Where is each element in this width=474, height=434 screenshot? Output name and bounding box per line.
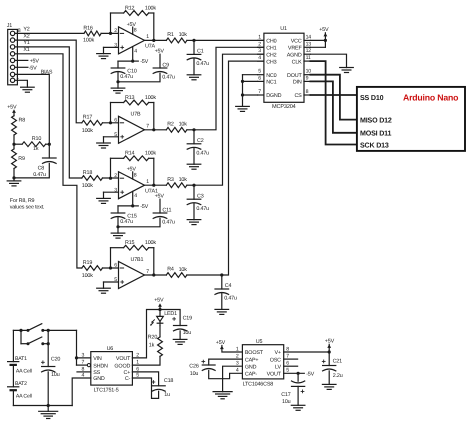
wire NC0 NC1 DGND to ground [243, 74, 258, 76]
wire R9 to ground [13, 169, 15, 178]
ground below C3 [193, 203, 195, 219]
wire J1 pin 3 -5V stub [15, 66, 28, 68]
svg-text:C18: C18 [164, 378, 174, 384]
wire C2 node to CH1 [194, 47, 264, 130]
svg-text:-5V: -5V [140, 59, 148, 65]
wire C15 to ground rail [117, 217, 119, 226]
svg-text:LTC1751-5: LTC1751-5 [94, 387, 119, 393]
wire U7A output [145, 39, 167, 41]
U7A1 -5V supply pin 4 [132, 191, 134, 206]
svg-text:3: 3 [258, 48, 261, 54]
svg-text:100k: 100k [82, 183, 93, 189]
capacitor C9 0.47u [153, 67, 167, 69]
svg-text:9: 9 [306, 75, 309, 81]
svg-text:100k: 100k [83, 37, 94, 43]
svg-text:+5V: +5V [7, 104, 17, 110]
svg-text:C-: C- [125, 376, 131, 382]
svg-text:Y1: Y1 [23, 40, 29, 46]
capacitor C20 10u [47, 330, 49, 366]
svg-text:CH2: CH2 [266, 52, 276, 58]
svg-text:CH0: CH0 [266, 39, 276, 45]
svg-text:MOSI D11: MOSI D11 [360, 130, 392, 138]
wire C26 bottom to CAP- [209, 370, 243, 378]
wire feedback loop U7B1 [110, 248, 112, 268]
capacitor C3 0.47u [193, 185, 195, 199]
svg-text:0.47u: 0.47u [120, 74, 133, 80]
switch SW1 pole A [13, 329, 28, 331]
svg-text:1u: 1u [164, 392, 170, 398]
wire R4 to C4 [187, 274, 222, 276]
wire C10 to ground rail [117, 72, 119, 81]
wire feedback loop U7B [110, 103, 112, 123]
svg-text:100k: 100k [145, 151, 156, 157]
svg-text:8: 8 [134, 28, 137, 34]
svg-text:BOOST: BOOST [245, 350, 264, 356]
wire J1 pin 4 +5V stub [15, 59, 28, 61]
svg-text:GND: GND [245, 364, 257, 370]
wire battery bottom rail [13, 405, 72, 407]
capacitor C1 0.47u [193, 40, 195, 54]
svg-text:For R8, R9: For R8, R9 [10, 198, 35, 204]
svg-text:10u: 10u [51, 372, 60, 378]
op-amp U7B1 [119, 262, 145, 289]
svg-text:C8: C8 [38, 165, 45, 171]
ground below C10 [111, 87, 125, 89]
svg-text:CLK: CLK [292, 59, 303, 65]
wire U6 GND to battery rail [72, 378, 91, 406]
wire C18 bottom to U6 C- [132, 378, 158, 398]
wire R1 to C1 [187, 39, 194, 41]
wire J1 pin 1 to ground [15, 80, 28, 87]
U7A -5V supply pin 4 [132, 47, 134, 62]
svg-text:VOUT: VOUT [116, 356, 131, 362]
svg-text:OSC: OSC [270, 357, 281, 363]
ground below C1 [193, 59, 195, 75]
ground below J1 [21, 86, 35, 88]
wire feedback loop U7A1 [110, 158, 112, 178]
svg-text:C19: C19 [183, 315, 193, 321]
wire switch to U6 VIN [77, 330, 91, 358]
wire +5V rail to U6 VOUT [132, 310, 160, 358]
wire R16 to U7A [101, 32, 118, 34]
op-amp U7A1 [119, 172, 145, 199]
svg-text:R8: R8 [19, 118, 26, 124]
svg-text:NC0: NC0 [266, 73, 276, 79]
svg-text:U7B: U7B [131, 112, 142, 118]
svg-text:100k: 100k [82, 273, 93, 279]
svg-text:0.47u: 0.47u [120, 219, 133, 225]
svg-text:GOOD: GOOD [114, 363, 130, 369]
svg-text:4: 4 [134, 48, 137, 54]
svg-text:+5V: +5V [216, 340, 226, 346]
svg-text:10k: 10k [179, 122, 188, 128]
svg-text:0.47u: 0.47u [162, 75, 175, 81]
svg-text:2: 2 [114, 28, 117, 34]
wire U7B1 output [145, 274, 167, 276]
svg-text:X1: X1 [23, 47, 29, 53]
svg-text:4: 4 [258, 55, 261, 61]
ground below U5 GND [213, 391, 232, 393]
svg-text:VCC: VCC [291, 39, 302, 45]
svg-text:VOUT: VOUT [267, 372, 282, 378]
wire ground rail to C9 [118, 73, 160, 82]
svg-text:7: 7 [81, 360, 84, 366]
ground below C17 [297, 386, 299, 405]
wire C4 node to CH3 [222, 61, 264, 275]
wire U7A1 output [145, 184, 167, 186]
ground below C19 [179, 331, 181, 340]
svg-text:+5V: +5V [155, 193, 165, 199]
Arduino Nano box [357, 87, 465, 151]
svg-text:R17: R17 [83, 115, 93, 121]
svg-text:7: 7 [146, 269, 149, 275]
op-amp U7B [119, 116, 145, 143]
capacitor C26 10u [202, 361, 205, 363]
wire CS to SS D10 [310, 94, 357, 96]
svg-text:C2: C2 [197, 138, 204, 144]
svg-text:5: 5 [258, 69, 261, 75]
svg-text:R1: R1 [167, 32, 174, 38]
capacitor C21 2.2u [328, 352, 330, 366]
wire VCC VREF to +5V [310, 39, 325, 41]
svg-text:1: 1 [146, 34, 149, 40]
wire DIN to MOSI D11 [310, 81, 357, 132]
LED LED1 [159, 310, 161, 317]
wire +5V to BOOST [222, 346, 243, 353]
svg-text:100k: 100k [82, 128, 93, 134]
capacitor C4 0.47u [221, 275, 223, 289]
svg-text:R18: R18 [83, 170, 93, 176]
svg-text:10k: 10k [179, 267, 188, 273]
ground below C2 [193, 148, 195, 164]
wire V+ to +5V [284, 351, 330, 353]
U6 SS stub [77, 371, 91, 373]
svg-text:R3: R3 [167, 177, 174, 183]
svg-text:CS: CS [294, 93, 302, 99]
svg-text:0.47u: 0.47u [196, 150, 209, 156]
wire R20 to U6 GOOD [132, 356, 160, 365]
svg-text:GND: GND [93, 376, 105, 382]
wire CLK to SCK D13 [310, 61, 357, 144]
connector J1 [8, 29, 18, 84]
ground at U7A + input [104, 46, 119, 48]
capacitor C17 10u [297, 373, 299, 381]
svg-text:C4: C4 [225, 283, 232, 289]
svg-text:6: 6 [258, 75, 261, 81]
svg-text:U7B1: U7B1 [131, 257, 144, 263]
wire feedback loop U7A [110, 13, 112, 33]
svg-text:R4: R4 [167, 267, 174, 273]
svg-text:2.2u: 2.2u [333, 373, 343, 379]
svg-text:AA Cell: AA Cell [16, 368, 32, 374]
svg-text:AGND: AGND [287, 52, 302, 58]
svg-text:R2: R2 [167, 121, 174, 127]
ground below R9 [7, 180, 21, 182]
wire C8 to R9 bottom [14, 163, 49, 178]
svg-text:+5V: +5V [155, 48, 165, 54]
svg-text:0.47u: 0.47u [224, 296, 237, 302]
svg-text:R13: R13 [125, 95, 135, 101]
svg-text:SCK D13: SCK D13 [360, 141, 389, 149]
svg-text:SHDN: SHDN [93, 363, 108, 369]
svg-text:SS: SS [93, 370, 100, 376]
capacitor C18 1u [132, 372, 158, 386]
wire U7A1 pin4 to C15 [118, 205, 133, 207]
charge pump U5 LTC1046CS8 [242, 345, 283, 379]
wire R2 to C2 [187, 129, 194, 131]
wire R8 to R9 junction [13, 135, 15, 144]
svg-text:Arduino Nano: Arduino Nano [403, 93, 458, 103]
ground at U7B + input [104, 136, 119, 138]
svg-text:NC1: NC1 [266, 80, 276, 86]
svg-text:R12: R12 [125, 5, 135, 11]
svg-text:C21: C21 [333, 359, 343, 365]
battery BAT1 AA Cell [12, 330, 14, 361]
ground below DGND [236, 105, 250, 107]
svg-text:AA Cell: AA Cell [16, 394, 32, 400]
svg-text:10u: 10u [183, 330, 192, 336]
LED light arrows [152, 320, 154, 322]
svg-text:10u: 10u [282, 399, 291, 405]
svg-text:+5V: +5V [30, 59, 40, 65]
wire CAP+ to C26 [209, 359, 243, 365]
svg-text:4: 4 [134, 193, 137, 199]
svg-text:100k: 100k [145, 5, 156, 11]
svg-text:7: 7 [146, 124, 149, 130]
svg-text:MISO D12: MISO D12 [360, 116, 392, 124]
wire switch pole link [20, 330, 22, 343]
wire R3 to C3 [187, 184, 194, 186]
svg-text:8: 8 [306, 89, 309, 95]
wire VIN to SHDN [76, 358, 78, 365]
svg-text:0.47u: 0.47u [196, 61, 209, 67]
capacitor C2 0.47u [193, 130, 195, 144]
switch SW1 pole B [21, 343, 28, 345]
svg-text:C9: C9 [162, 62, 169, 68]
svg-text:R19: R19 [83, 260, 93, 266]
capacitor C11 0.47u [153, 212, 167, 214]
svg-text:100k: 100k [145, 240, 156, 246]
svg-text:values see text.: values see text. [10, 205, 45, 211]
svg-text:R20: R20 [148, 334, 158, 340]
svg-text:+5V: +5V [319, 27, 329, 33]
svg-text:DIN: DIN [293, 80, 302, 86]
svg-text:LTC1046CS8: LTC1046CS8 [243, 381, 274, 387]
ground below C4 [221, 293, 223, 309]
svg-text:C17: C17 [281, 392, 291, 398]
capacitor C15 0.47u [111, 212, 125, 214]
ground below C15 [111, 232, 125, 234]
svg-text:0.47u: 0.47u [196, 206, 209, 212]
svg-text:R15: R15 [125, 240, 135, 246]
U5 OSC stub [284, 358, 298, 360]
svg-text:3: 3 [81, 352, 84, 358]
svg-text:CAP-: CAP- [245, 372, 258, 378]
svg-text:MCP3204: MCP3204 [272, 104, 296, 110]
svg-text:CAP+: CAP+ [245, 357, 259, 363]
svg-text:C26: C26 [189, 363, 199, 369]
svg-text:DGND: DGND [266, 93, 281, 99]
op-amp U7A [119, 27, 145, 54]
svg-text:Y2: Y2 [23, 27, 29, 33]
svg-text:C1: C1 [197, 49, 204, 55]
svg-text:VIN: VIN [93, 356, 102, 362]
svg-text:X2: X2 [23, 33, 29, 39]
ground at battery rail [47, 406, 49, 412]
svg-text:C3: C3 [197, 193, 204, 199]
svg-text:C+: C+ [124, 370, 131, 376]
svg-text:2: 2 [258, 41, 261, 47]
svg-text:V+: V+ [275, 350, 281, 356]
svg-text:R14: R14 [125, 151, 135, 157]
svg-text:10k: 10k [179, 177, 188, 183]
wire AGND to ground [310, 54, 346, 67]
ground below AGND [340, 67, 354, 69]
capacitor C19 10u [160, 310, 180, 326]
svg-text:+5V: +5V [154, 298, 164, 304]
svg-text:U6: U6 [107, 346, 114, 352]
wire ground rail to C11 [118, 218, 160, 227]
svg-text:CH1: CH1 [266, 46, 276, 52]
ADC U1 MCP3204 [264, 33, 304, 102]
svg-text:LED1: LED1 [164, 311, 177, 317]
svg-text:1: 1 [258, 34, 261, 40]
svg-text:VREF: VREF [288, 46, 303, 52]
svg-text:12: 12 [306, 48, 312, 54]
ground at U7B1 + input [104, 281, 119, 283]
capacitor C8 0.47u [48, 144, 50, 158]
svg-text:-5V: -5V [29, 66, 37, 72]
svg-text:U5: U5 [256, 339, 263, 345]
svg-text:J1: J1 [7, 23, 13, 29]
svg-text:R9: R9 [18, 156, 25, 162]
wire U7B output [145, 129, 167, 131]
svg-text:1k: 1k [149, 343, 155, 349]
wire U7A pin4 to C10 [118, 60, 133, 62]
svg-text:8: 8 [134, 173, 137, 179]
svg-text:DOUT: DOUT [287, 73, 302, 79]
ground below C21 [328, 371, 330, 385]
svg-text:100k: 100k [145, 95, 156, 101]
svg-text:-5V: -5V [140, 204, 148, 210]
svg-text:10u: 10u [190, 371, 199, 377]
wire U5 GND to ground [223, 366, 243, 391]
U5 LV stub [284, 365, 298, 367]
svg-text:C20: C20 [51, 356, 61, 362]
capacitor C10 0.47u [111, 67, 125, 69]
svg-text:SS D10: SS D10 [360, 94, 384, 102]
svg-text:C11: C11 [162, 207, 171, 213]
svg-text:CH3: CH3 [266, 59, 276, 65]
svg-text:LV: LV [275, 364, 281, 370]
svg-text:14: 14 [306, 34, 312, 40]
svg-text:U1: U1 [280, 26, 287, 32]
ground at U7A1 + input [104, 191, 119, 193]
regulator U6 LTC1751-5 [91, 352, 133, 386]
wire VOUT -5V net [284, 372, 305, 374]
svg-text:13: 13 [306, 41, 312, 47]
svg-text:1: 1 [146, 179, 149, 185]
svg-text:0.47u: 0.47u [162, 220, 175, 226]
wire C1 node to CH0 [194, 39, 264, 41]
svg-text:7: 7 [258, 89, 261, 95]
resistor R20 1k [159, 326, 161, 337]
svg-text:-5V: -5V [306, 371, 314, 377]
svg-text:10k: 10k [179, 32, 188, 38]
wire DOUT to MISO D12 [310, 75, 357, 120]
wire C3 node to CH2 [194, 54, 264, 185]
